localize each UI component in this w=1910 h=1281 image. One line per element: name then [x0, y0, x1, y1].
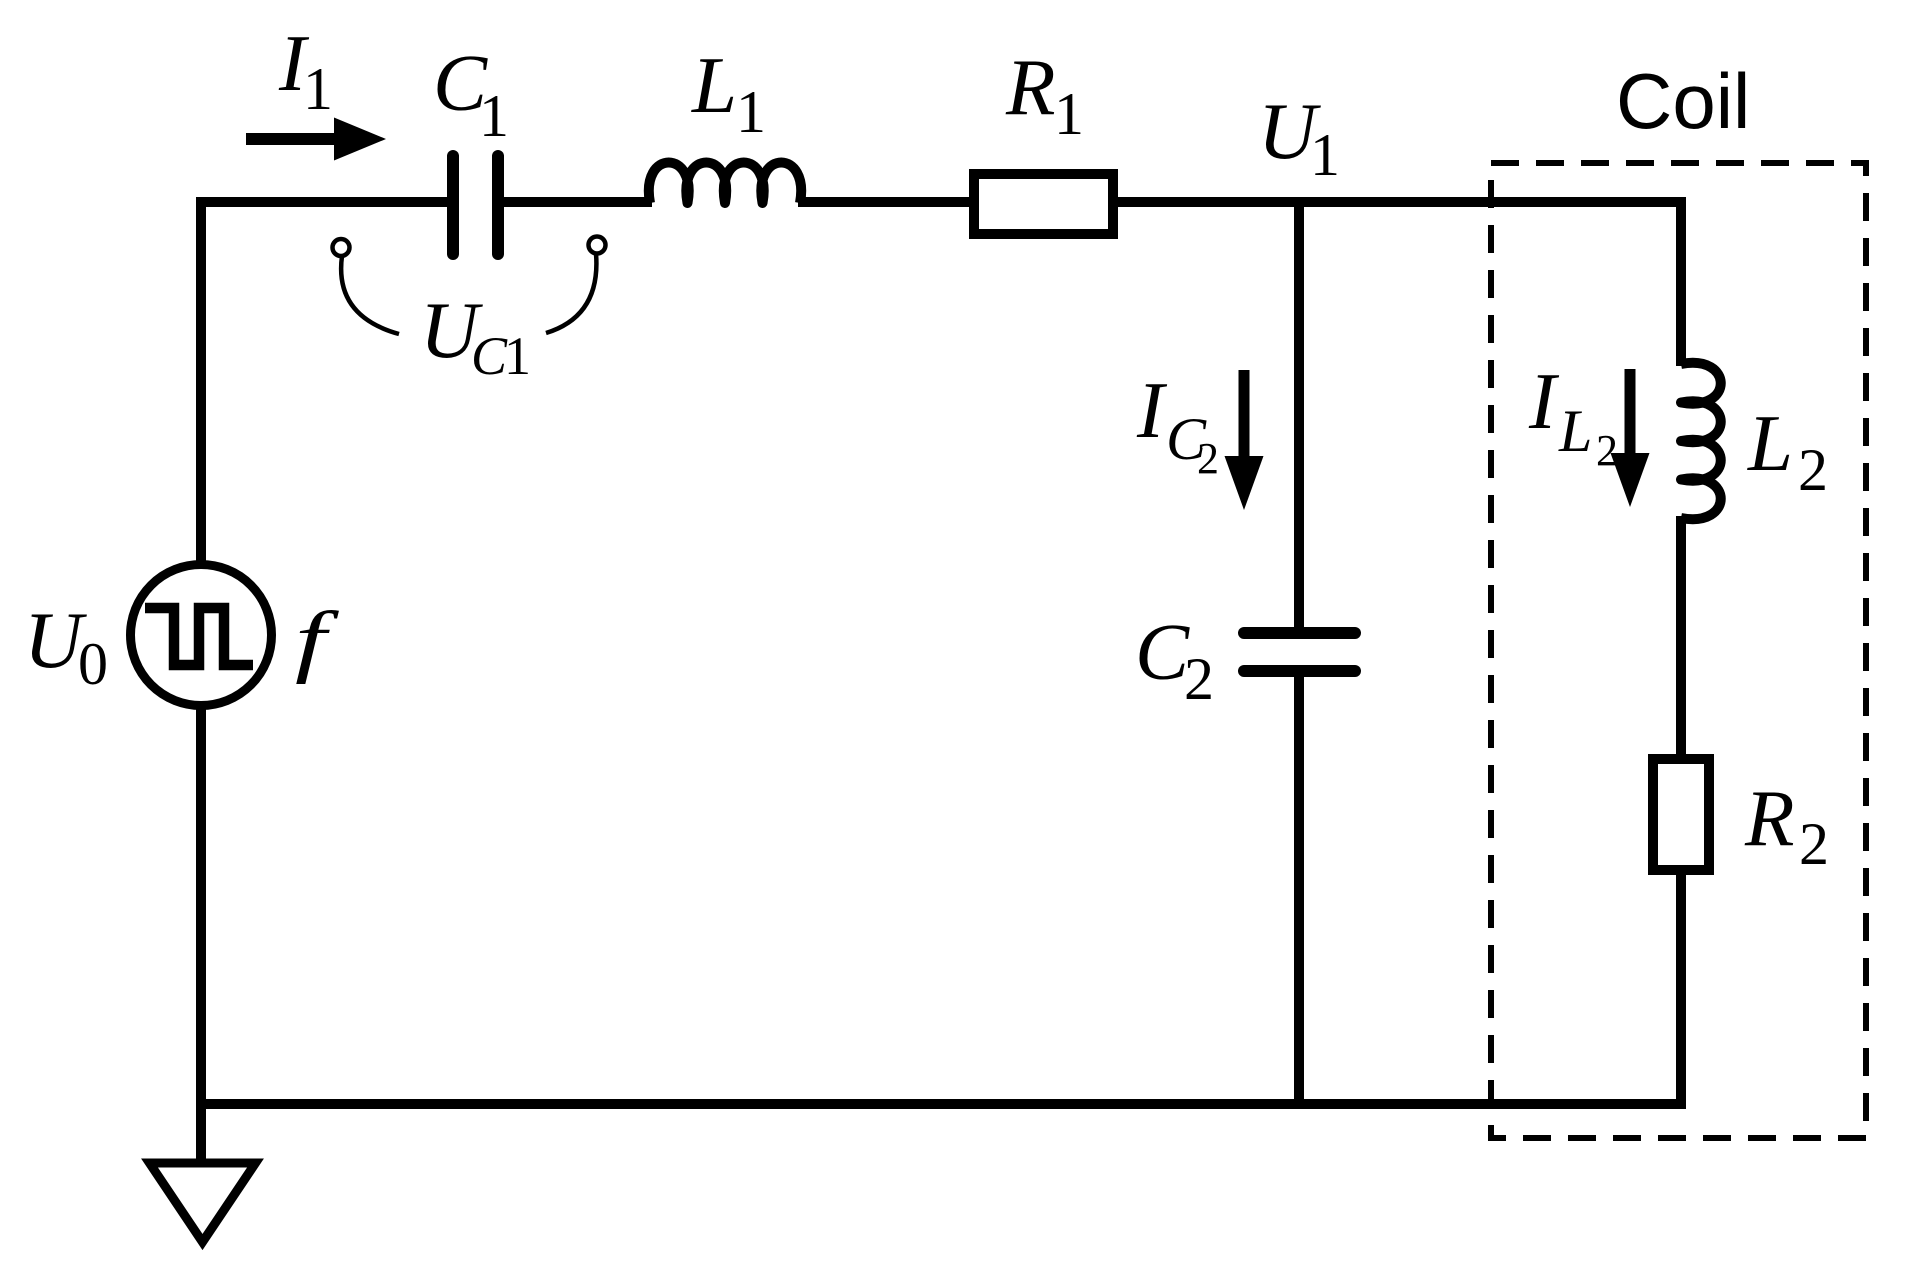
svg-text:Coil: Coil — [1616, 57, 1750, 145]
svg-text:R: R — [1005, 42, 1055, 132]
label IL2 — [1528, 356, 1618, 475]
leader arc right — [546, 254, 596, 334]
svg-text:2: 2 — [1799, 811, 1829, 877]
svg-text:2: 2 — [1798, 437, 1828, 503]
label L1 — [691, 40, 766, 145]
Coil dashed box — [1491, 163, 1866, 1138]
resistor R1 — [974, 174, 1113, 234]
wire L1 to R1 — [798, 197, 976, 207]
label f — [295, 596, 340, 686]
capacitor C1 — [453, 156, 498, 254]
probe circle right — [589, 237, 606, 254]
svg-text:2: 2 — [1596, 426, 1618, 475]
svg-text:0: 0 — [78, 631, 108, 697]
probe circle left — [333, 239, 350, 256]
svg-text:L: L — [691, 40, 737, 130]
label U1 — [1258, 86, 1340, 188]
label C1 — [433, 38, 509, 149]
svg-text:1: 1 — [479, 83, 509, 149]
svg-text:1: 1 — [504, 326, 531, 386]
svg-text:2: 2 — [1184, 646, 1214, 712]
ground — [150, 1163, 256, 1242]
svg-text:C: C — [1135, 607, 1190, 697]
wire source to ground — [196, 702, 206, 1162]
label R1 — [1005, 42, 1084, 147]
inductor L2 — [1681, 363, 1721, 519]
wire C1 to L1 — [501, 197, 652, 207]
inductor L1 — [649, 163, 801, 204]
capacitor C2 — [1244, 633, 1355, 671]
arrow I1 — [246, 118, 386, 161]
arrow IC2 — [1225, 370, 1264, 510]
svg-text:I: I — [1136, 365, 1168, 455]
svg-text:2: 2 — [1197, 434, 1219, 483]
label IC2 — [1136, 365, 1219, 483]
svg-text:R: R — [1744, 773, 1794, 863]
svg-text:1: 1 — [1310, 122, 1340, 188]
voltage source U0 circle — [131, 565, 272, 706]
wire R1 to Coil corner, down to L2 — [1111, 202, 1681, 366]
label I1 — [278, 18, 333, 122]
svg-text:C: C — [471, 326, 508, 386]
wire L2 to R2 — [1676, 516, 1686, 761]
label UC1 — [420, 285, 531, 386]
wire node U1 down to C2 — [1294, 202, 1304, 635]
svg-text:L: L — [1747, 398, 1793, 488]
wire R2 to bottom rail corner — [1676, 873, 1686, 1109]
label R2 — [1744, 773, 1829, 877]
svg-text:1: 1 — [303, 56, 333, 122]
svg-text:1: 1 — [1054, 81, 1084, 147]
svg-text:L: L — [1558, 398, 1592, 464]
label C2 — [1135, 607, 1214, 712]
svg-text:1: 1 — [736, 79, 766, 145]
svg-text:I: I — [1528, 356, 1560, 446]
resistor R2 — [1653, 759, 1709, 870]
square wave symbol — [145, 608, 253, 665]
label U0 — [24, 595, 108, 697]
wire top-left from source to C1 — [201, 202, 450, 568]
wire C2 to bottom rail — [1294, 669, 1304, 1104]
arrow IL2 — [1611, 369, 1650, 507]
label L2 — [1747, 398, 1828, 503]
wire bottom rail — [196, 1099, 1686, 1109]
leader arc left — [341, 256, 399, 334]
